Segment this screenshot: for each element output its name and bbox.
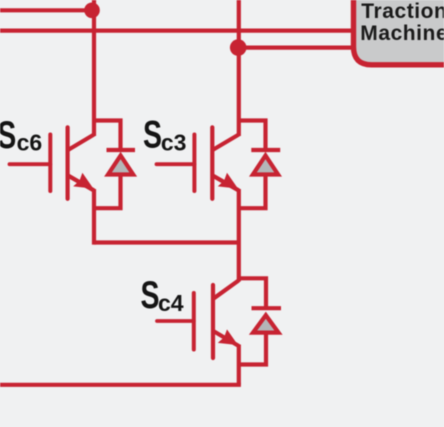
diode D_c6 loop	[94, 121, 121, 151]
traction machine box	[354, 0, 444, 65]
svg-text:S: S	[0, 114, 16, 157]
wire bottom horizontal	[0, 383, 241, 387]
svg-text:c3: c3	[161, 129, 187, 155]
diode D_c4 triangle	[253, 315, 279, 332]
wire emitter bus S_c6 to vertical 2	[94, 240, 239, 244]
gate lead	[10, 162, 51, 166]
body bar	[65, 127, 69, 199]
collector diagonal	[213, 135, 239, 151]
wire vertical bus 2	[237, 0, 241, 136]
svg-text:Traction: Traction	[361, 0, 444, 23]
svg-text:Machine: Machine	[360, 22, 444, 45]
wire top-left horizontal	[0, 8, 92, 12]
emitter wire down	[237, 345, 241, 385]
wire junction 2 to machine	[239, 45, 356, 49]
collector diagonal	[214, 280, 239, 298]
diode D_c3 cathode bar	[251, 148, 280, 152]
emitter arrow S_c3	[218, 173, 238, 189]
emitter diagonal	[213, 176, 239, 191]
svg-text:S: S	[141, 274, 160, 317]
diode D_c3 triangle	[253, 156, 278, 175]
wire vertical bus 1	[92, 0, 96, 136]
transistor S_c4 (IGBT)	[157, 280, 239, 385]
wire long horizontal	[0, 29, 356, 33]
emitter diagonal	[213, 331, 239, 346]
gate lead	[157, 319, 194, 323]
diode D_c4 loop	[239, 278, 266, 308]
svg-text:c4: c4	[158, 290, 184, 316]
body bar	[211, 285, 215, 358]
gate bar	[192, 293, 196, 350]
diode D_c6 cathode bar	[107, 148, 136, 152]
transistor S_c6 (IGBT)	[10, 127, 95, 244]
gate bar	[192, 135, 196, 192]
gate lead	[157, 162, 195, 166]
emitter diagonal	[68, 176, 94, 191]
body bar	[210, 127, 214, 199]
diode D_c4 cathode bar	[252, 306, 282, 310]
transistor S_c3 (IGBT)	[157, 127, 239, 281]
svg-text:S: S	[143, 114, 162, 157]
diode D_c6 triangle	[108, 156, 133, 175]
emitter wire down	[92, 189, 96, 245]
collector diagonal	[68, 135, 94, 151]
node junction dot 2	[230, 39, 247, 56]
emitter wire down	[237, 189, 241, 282]
gate bar	[48, 135, 52, 192]
diode D_c3 loop	[239, 121, 266, 151]
svg-text:c6: c6	[17, 129, 43, 155]
node junction dot 1	[84, 3, 100, 19]
emitter arrow S_c6	[73, 173, 93, 189]
emitter arrow S_c4	[218, 329, 238, 345]
